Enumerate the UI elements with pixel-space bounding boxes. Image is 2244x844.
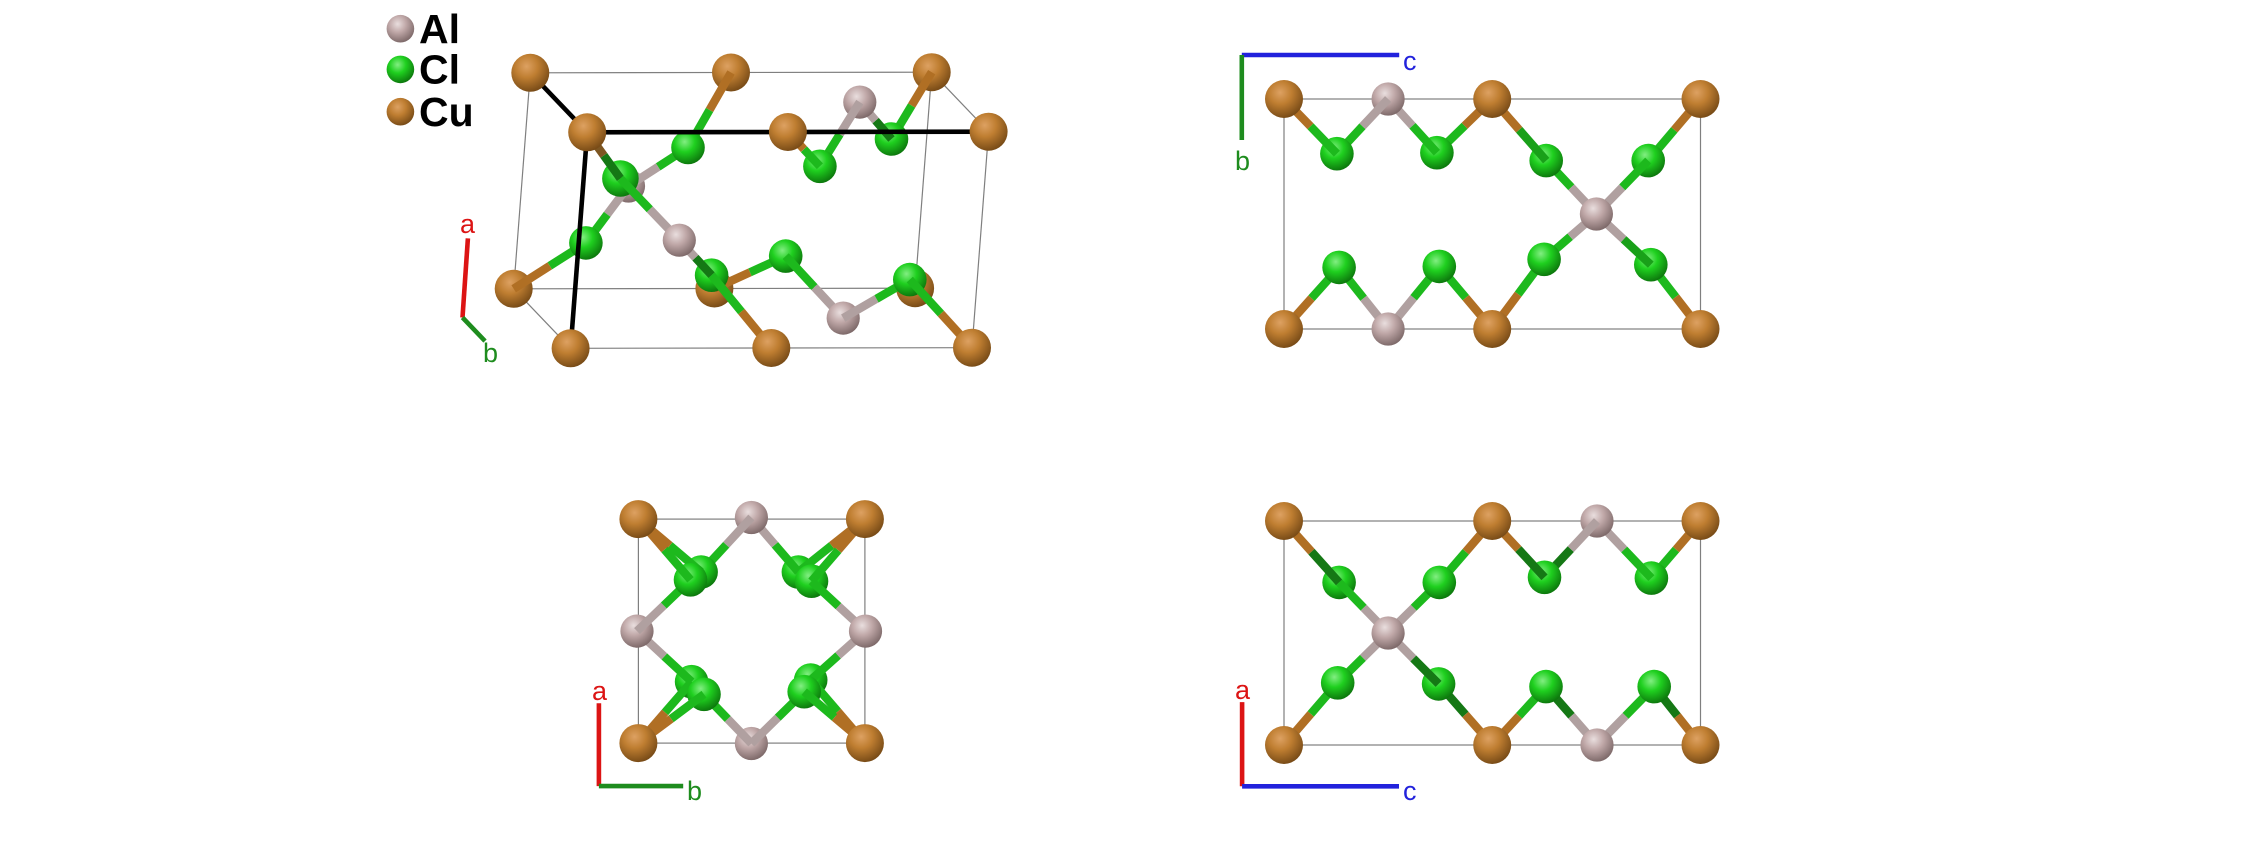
svg-text:Al: Al [419, 6, 460, 52]
svg-text:Cl: Cl [419, 47, 460, 93]
svg-text:a: a [592, 676, 608, 706]
svg-text:a: a [460, 209, 476, 239]
svg-text:b: b [687, 776, 702, 806]
svg-text:c: c [1403, 46, 1417, 76]
svg-text:a: a [1235, 675, 1251, 705]
svg-text:c: c [1403, 776, 1417, 806]
svg-text:b: b [483, 338, 498, 368]
svg-text:b: b [1235, 146, 1250, 176]
svg-text:Cu: Cu [419, 89, 474, 135]
